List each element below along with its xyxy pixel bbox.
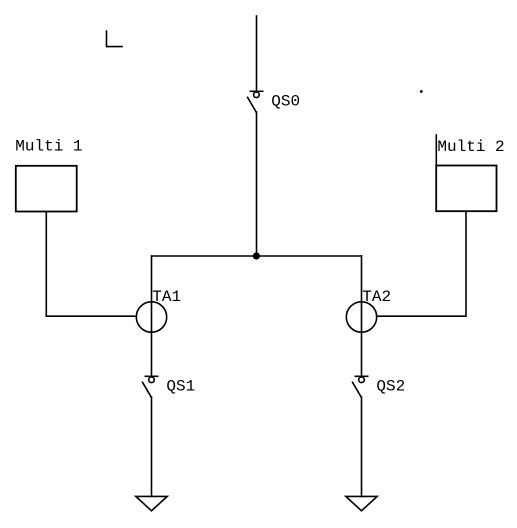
wire incoming feeder top [256, 16, 258, 91]
disconnector QS0 [248, 91, 263, 112]
wire left drop to QS1 [151, 256, 153, 376]
ground right [346, 496, 377, 510]
disconnector QS2 [353, 376, 368, 397]
current transformer TA1 [136, 302, 166, 332]
svg-text:QS2: QS2 [376, 378, 405, 396]
svg-text:TA2: TA2 [362, 288, 391, 306]
svg-text:TA1: TA1 [152, 288, 181, 306]
wire Multi 1 to TA1 [46, 212, 136, 317]
wire QS1 to ground [151, 397, 153, 496]
source box Multi 2 [436, 166, 496, 212]
stray dot [420, 90, 423, 93]
svg-text:Multi 1: Multi 1 [15, 137, 82, 155]
svg-text:QS1: QS1 [166, 378, 195, 396]
ground left [136, 496, 167, 510]
wire Multi 2 to TA2 [377, 211, 466, 316]
wire right drop to QS2 [361, 256, 363, 376]
wire QS0 to junction [256, 112, 258, 256]
disconnector QS1 [143, 376, 158, 397]
svg-text:Multi 2: Multi 2 [437, 138, 504, 156]
wire QS2 to ground [361, 397, 363, 496]
wire stub above Multi 2 [435, 135, 437, 166]
current transformer TA2 [346, 302, 376, 332]
svg-text:QS0: QS0 [271, 93, 300, 111]
wire horizontal bus [152, 255, 362, 257]
cursor mark L [107, 31, 123, 47]
source box Multi 1 [16, 166, 77, 212]
node junction dot [253, 252, 260, 259]
